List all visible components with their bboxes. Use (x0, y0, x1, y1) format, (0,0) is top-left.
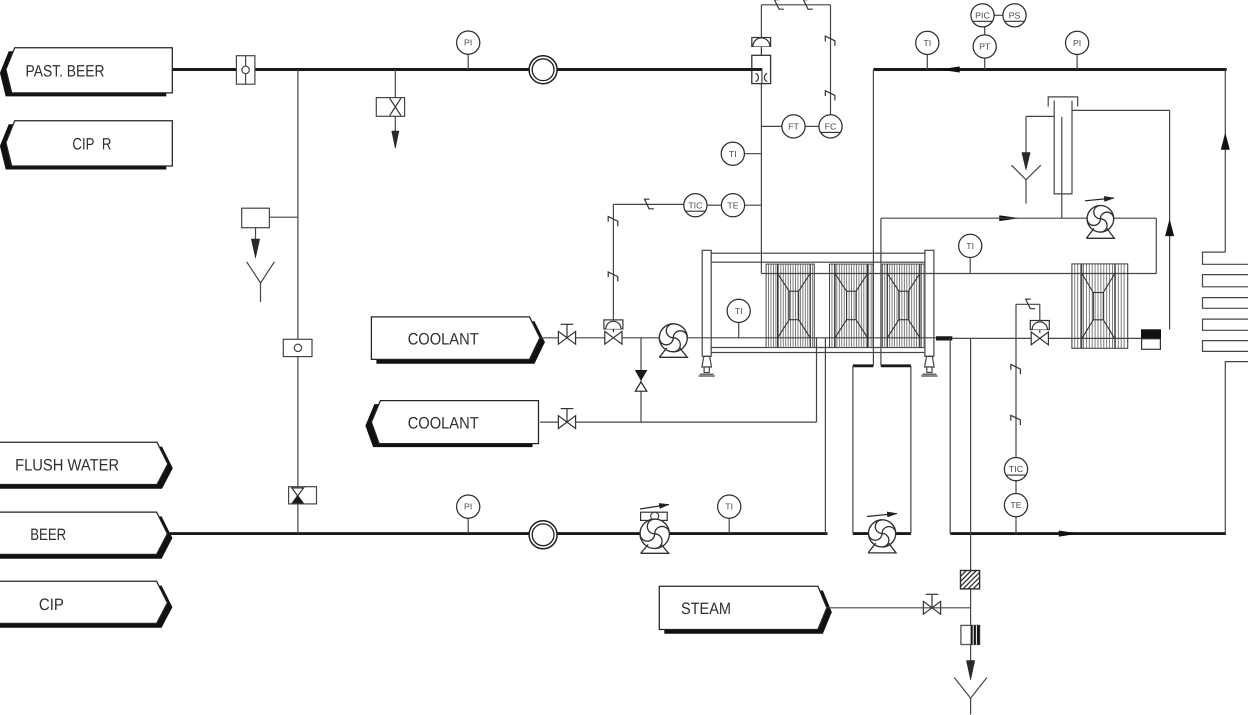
svg-text:PS: PS (1009, 10, 1021, 20)
svg-text:TI: TI (725, 502, 733, 512)
svg-text:CIP: CIP (39, 595, 64, 614)
svg-text:TI: TI (729, 149, 737, 159)
svg-text:PI: PI (464, 38, 472, 48)
svg-text:FC: FC (825, 122, 837, 132)
svg-text:TE: TE (1010, 500, 1021, 510)
svg-text:PAST. BEER: PAST. BEER (26, 61, 105, 80)
svg-text:TI: TI (923, 38, 931, 48)
svg-text:PI: PI (1073, 38, 1081, 48)
svg-text:CIP R: CIP R (72, 135, 111, 154)
svg-text:COOLANT: COOLANT (408, 330, 479, 349)
svg-text:TI: TI (735, 306, 743, 316)
svg-text:TE: TE (727, 200, 738, 210)
svg-text:TIC: TIC (688, 200, 703, 210)
svg-text:BEER: BEER (30, 525, 66, 544)
svg-text:PT: PT (979, 42, 991, 52)
svg-text:TIC: TIC (1009, 464, 1024, 474)
svg-text:FLUSH WATER: FLUSH WATER (15, 456, 119, 475)
svg-text:STEAM: STEAM (681, 599, 731, 618)
svg-text:TI: TI (966, 241, 974, 251)
svg-text:PIC: PIC (975, 10, 990, 20)
svg-text:COOLANT: COOLANT (408, 414, 479, 433)
svg-text:FT: FT (788, 122, 799, 132)
svg-text:PI: PI (464, 502, 472, 512)
